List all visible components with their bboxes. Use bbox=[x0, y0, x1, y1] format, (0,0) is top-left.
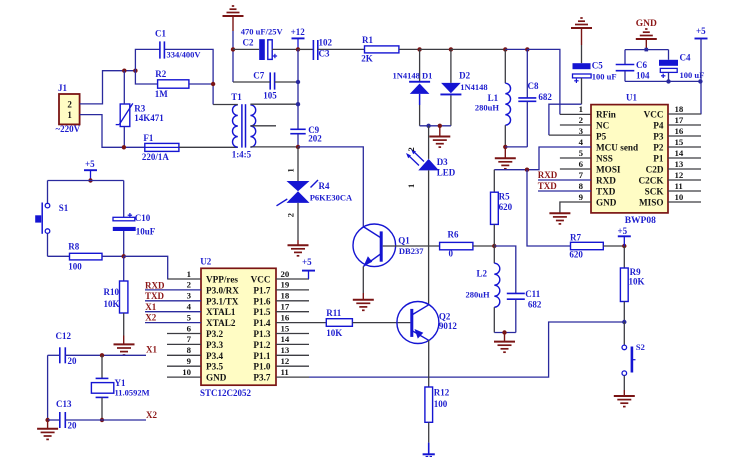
ground Q1 bbox=[353, 299, 374, 301]
wire +5 stem to VCC pin18 bbox=[700, 39, 702, 115]
node D2 top junction bbox=[449, 47, 453, 51]
wire down to T1 node bbox=[297, 82, 299, 104]
node R3 top junction bbox=[122, 69, 126, 73]
capacitor C8 682 bbox=[526, 49, 528, 98]
svg-text:10K: 10K bbox=[104, 299, 120, 309]
resistor R5 bbox=[491, 192, 499, 224]
wire X2 pin5 bbox=[145, 322, 201, 324]
svg-text:L1: L1 bbox=[488, 93, 499, 103]
node +5 stem junction bbox=[698, 79, 702, 83]
wire R5 top bbox=[493, 170, 495, 193]
node F1 junction bbox=[122, 145, 126, 149]
svg-text:C2CK: C2CK bbox=[638, 176, 664, 186]
svg-text:3: 3 bbox=[579, 126, 584, 136]
svg-text:100: 100 bbox=[68, 262, 82, 272]
svg-text:13: 13 bbox=[675, 159, 684, 169]
node L1 top junction bbox=[503, 47, 507, 51]
svg-text:C2: C2 bbox=[243, 38, 254, 48]
wire C13 left bbox=[48, 419, 60, 421]
svg-text:C10: C10 bbox=[135, 213, 151, 223]
wire rail L1-C8 bbox=[505, 48, 527, 50]
resistor R3 varistor bbox=[120, 104, 130, 127]
svg-text:10: 10 bbox=[675, 192, 684, 202]
ground L1 bbox=[504, 147, 506, 158]
ground crystal bbox=[47, 420, 49, 429]
svg-text:334/400V: 334/400V bbox=[167, 49, 202, 59]
wire TXD pin3 bbox=[145, 300, 201, 302]
node C2 left junction bbox=[231, 47, 235, 51]
wire R10 bottom bbox=[123, 313, 125, 336]
svg-text:10K: 10K bbox=[326, 328, 342, 338]
power +5 S1 bbox=[84, 169, 97, 171]
svg-text:3: 3 bbox=[187, 291, 192, 301]
ground C5 top bbox=[571, 27, 592, 29]
wire R4 bottom bbox=[297, 203, 299, 240]
wire D1-D2 bottom bbox=[420, 125, 451, 127]
svg-text:SCK: SCK bbox=[645, 187, 665, 197]
ground L2 bbox=[504, 333, 506, 342]
svg-text:+5: +5 bbox=[696, 26, 706, 36]
svg-text:P1.1: P1.1 bbox=[253, 351, 271, 361]
capacitor C1 bbox=[159, 41, 161, 58]
svg-text:TXD: TXD bbox=[596, 187, 616, 197]
wire junction to U2 pin1 bbox=[124, 256, 168, 279]
svg-text:1: 1 bbox=[286, 168, 296, 172]
wire R2 left lead bbox=[135, 71, 157, 84]
svg-text:682: 682 bbox=[538, 92, 552, 102]
svg-text:11: 11 bbox=[281, 367, 289, 377]
svg-text:19: 19 bbox=[281, 280, 290, 290]
svg-text:P1.4: P1.4 bbox=[253, 318, 271, 328]
U1 right stubs bbox=[668, 124, 701, 126]
svg-text:RXD: RXD bbox=[596, 176, 616, 186]
capacitor C6 104 bbox=[624, 50, 626, 65]
svg-text:12: 12 bbox=[675, 170, 684, 180]
svg-text:P1.5: P1.5 bbox=[253, 307, 271, 317]
svg-text:XTAL2: XTAL2 bbox=[206, 318, 236, 328]
diode D1 1N4148 bbox=[419, 49, 421, 81]
ground top power bbox=[223, 15, 244, 17]
svg-text:5: 5 bbox=[579, 148, 584, 158]
wire C9 node to Q1 collector bbox=[298, 147, 363, 227]
svg-text:L2: L2 bbox=[477, 269, 488, 279]
resistor R9 bbox=[623, 246, 625, 268]
svg-text:+5: +5 bbox=[302, 257, 312, 267]
svg-text:P1: P1 bbox=[653, 154, 664, 164]
inductor L2 280uH bbox=[493, 246, 495, 263]
svg-text:220/1A: 220/1A bbox=[142, 152, 170, 162]
svg-text:14: 14 bbox=[675, 148, 684, 158]
svg-text:9012: 9012 bbox=[439, 321, 458, 331]
node D3 junction bbox=[426, 124, 430, 128]
svg-text:1N4148 D1: 1N4148 D1 bbox=[393, 70, 433, 80]
power +5 U2 bbox=[302, 270, 315, 272]
node C4 bottom junction bbox=[666, 79, 670, 83]
svg-text:GND: GND bbox=[636, 19, 657, 29]
wire R5 node to C11 bbox=[494, 246, 516, 293]
node GND junction bbox=[645, 48, 649, 52]
svg-text:8: 8 bbox=[187, 345, 192, 355]
svg-text:F1: F1 bbox=[143, 133, 153, 143]
wire C4 bottom rail bbox=[668, 72, 670, 81]
wire D3 to Q2 collector bbox=[428, 170, 430, 304]
svg-text:14K471: 14K471 bbox=[134, 113, 164, 123]
wire pin4 MCU send net bbox=[494, 147, 591, 170]
svg-text:RXD: RXD bbox=[538, 170, 558, 180]
wire left vertical C12-C13 bbox=[47, 355, 49, 420]
U2 right stubs bbox=[276, 278, 309, 280]
node S2 junction bbox=[622, 320, 626, 324]
wire Q2 emitter to R12 bbox=[428, 340, 430, 387]
wire R12 bottom bbox=[428, 422, 430, 442]
capacitor C3 bbox=[312, 40, 314, 60]
wire T1 secondary top bbox=[250, 103, 298, 105]
svg-text:P3.7: P3.7 bbox=[253, 373, 271, 383]
wire RXD pin7 bbox=[538, 179, 591, 181]
wire C12 right to X1 bbox=[65, 354, 146, 356]
wire C7 right bbox=[275, 81, 298, 83]
wire Q1 emitter to ground bbox=[362, 266, 364, 293]
svg-text:104: 104 bbox=[636, 71, 650, 81]
svg-text:R4: R4 bbox=[319, 181, 330, 191]
svg-text:S1: S1 bbox=[59, 203, 69, 213]
ground D1D2 bbox=[439, 126, 441, 137]
connector J1 bbox=[59, 94, 80, 124]
svg-text:VCC: VCC bbox=[251, 275, 271, 285]
wire TXD pin8 bbox=[538, 190, 591, 192]
node corner junction C1/R2 bbox=[133, 69, 137, 73]
wire rail to RFin bbox=[527, 49, 560, 114]
wire X1 pin4 bbox=[145, 311, 201, 313]
svg-text:2: 2 bbox=[579, 115, 584, 125]
ground S2 bbox=[614, 395, 635, 397]
wire F1 to T1 primary bottom bbox=[179, 146, 238, 148]
svg-text:202: 202 bbox=[308, 134, 322, 144]
svg-text:8: 8 bbox=[579, 181, 584, 191]
node L1 bottom junction bbox=[503, 145, 507, 149]
svg-text:4: 4 bbox=[187, 302, 192, 312]
transistor Q2 9012 bbox=[397, 302, 439, 344]
svg-text:18: 18 bbox=[281, 291, 290, 301]
svg-text:17: 17 bbox=[675, 115, 684, 125]
svg-text:NC: NC bbox=[596, 121, 609, 131]
svg-text:MOSI: MOSI bbox=[596, 165, 621, 175]
node R9 top junction bbox=[622, 244, 626, 248]
node X1 junction bbox=[100, 353, 104, 357]
svg-text:R11: R11 bbox=[326, 308, 342, 318]
svg-text:1: 1 bbox=[579, 104, 583, 114]
wire ground stem to C2 node bbox=[232, 16, 234, 31]
svg-text:C6: C6 bbox=[636, 60, 647, 70]
svg-text:P4: P4 bbox=[653, 121, 664, 131]
svg-text:NSS: NSS bbox=[596, 154, 613, 164]
wire GND pin9 bbox=[560, 202, 591, 213]
svg-text:GND: GND bbox=[206, 373, 227, 383]
svg-text:20: 20 bbox=[68, 356, 78, 366]
wire J1 pin1 to bottom rail bbox=[80, 115, 145, 148]
wire C2 right to +12 node bbox=[272, 48, 298, 50]
svg-text:R12: R12 bbox=[434, 388, 450, 398]
wire C13 right to X2 bbox=[65, 419, 146, 421]
power +5 R7R9 bbox=[618, 235, 631, 237]
svg-text:P6KE30CA: P6KE30CA bbox=[310, 193, 353, 203]
wire R9 bottom bbox=[623, 302, 625, 323]
svg-text:+5: +5 bbox=[85, 159, 95, 169]
capacitor C7 bbox=[269, 72, 271, 89]
svg-text:T1: T1 bbox=[231, 92, 242, 102]
capacitor C4 100uF electrolytic bbox=[668, 50, 670, 60]
svg-text:Y1: Y1 bbox=[115, 378, 126, 388]
svg-text:+5: +5 bbox=[618, 226, 628, 236]
svg-text:TXD: TXD bbox=[538, 181, 558, 191]
svg-text:RXD: RXD bbox=[145, 280, 165, 290]
svg-text:C13: C13 bbox=[56, 399, 72, 409]
pin 5 stub NSS bbox=[560, 157, 591, 159]
wire R2 right lead bbox=[189, 83, 213, 85]
resistor R11 bbox=[309, 322, 326, 324]
svg-text:MISO: MISO bbox=[639, 198, 664, 208]
svg-text:1N4148: 1N4148 bbox=[460, 82, 487, 92]
ground R10 bbox=[114, 343, 135, 345]
svg-text:20: 20 bbox=[281, 269, 290, 279]
U2 left stubs bbox=[167, 333, 201, 335]
wire C3 to R1 bbox=[318, 48, 365, 50]
diode R4 TVS P6KE30CA bbox=[297, 147, 299, 181]
svg-text:12: 12 bbox=[281, 356, 290, 366]
svg-text:10K: 10K bbox=[629, 276, 645, 286]
svg-text:6: 6 bbox=[579, 159, 584, 169]
resistor R10 bbox=[123, 256, 125, 281]
svg-text:2: 2 bbox=[187, 280, 192, 290]
svg-text:280uH: 280uH bbox=[475, 103, 499, 113]
svg-text:~220V: ~220V bbox=[56, 124, 81, 134]
svg-text:J1: J1 bbox=[58, 83, 68, 93]
wire C1 right to corner bbox=[164, 49, 213, 104]
svg-text:VPP/res: VPP/res bbox=[206, 275, 238, 285]
node R5 junction bbox=[492, 244, 496, 248]
svg-text:10uF: 10uF bbox=[136, 227, 156, 237]
svg-text:P3.2: P3.2 bbox=[206, 329, 224, 339]
pin 2 stub NC bbox=[560, 124, 591, 126]
svg-text:14: 14 bbox=[281, 334, 290, 344]
wire S2 to ground bbox=[623, 376, 625, 391]
svg-text:BWP08: BWP08 bbox=[625, 216, 656, 226]
svg-text:102: 102 bbox=[319, 38, 333, 48]
diode D2 1N4148 bbox=[450, 49, 452, 83]
node C7 right junction bbox=[296, 80, 300, 84]
svg-text:P2: P2 bbox=[653, 143, 664, 153]
svg-text:C5: C5 bbox=[592, 60, 603, 70]
svg-text:R5: R5 bbox=[499, 192, 510, 202]
wire T1 secondary tap bbox=[250, 125, 276, 127]
node R2 right junction bbox=[211, 82, 215, 86]
svg-text:15: 15 bbox=[281, 323, 290, 333]
fuse F1 bbox=[145, 143, 179, 151]
svg-text:1: 1 bbox=[406, 184, 416, 188]
wire R7 to +5 node bbox=[603, 245, 624, 247]
svg-text:XTAL1: XTAL1 bbox=[206, 307, 236, 317]
svg-text:7: 7 bbox=[579, 170, 584, 180]
svg-text:100 uF: 100 uF bbox=[592, 72, 617, 82]
svg-text:2: 2 bbox=[406, 147, 416, 151]
svg-text:682: 682 bbox=[528, 300, 542, 310]
wire +12 node down to C7 bbox=[297, 49, 299, 82]
op-amp U2 STC12C2052 IC body bbox=[201, 268, 276, 385]
wire C2 left bbox=[233, 48, 259, 50]
svg-text:P3.4: P3.4 bbox=[206, 351, 224, 361]
svg-text:P1.2: P1.2 bbox=[253, 340, 271, 350]
svg-text:1: 1 bbox=[187, 269, 191, 279]
svg-text:R7: R7 bbox=[570, 233, 581, 243]
resistor R7 bbox=[571, 242, 604, 249]
svg-text:C12: C12 bbox=[56, 331, 72, 341]
wire MCU branch to R7 bbox=[527, 170, 571, 246]
svg-text:P3.0/RX: P3.0/RX bbox=[206, 285, 239, 295]
wire T1 primary top bbox=[213, 104, 238, 106]
capacitor C9 bbox=[297, 104, 299, 129]
svg-text:1:4:5: 1:4:5 bbox=[232, 150, 252, 160]
wire R8 right bbox=[102, 255, 124, 257]
svg-text:2K: 2K bbox=[361, 54, 373, 64]
diode D3 LED bbox=[428, 126, 430, 159]
svg-text:R2: R2 bbox=[155, 69, 166, 79]
resistor R1 bbox=[365, 46, 399, 53]
svg-text:16: 16 bbox=[281, 312, 290, 322]
transistor Q1 DB237 bbox=[353, 224, 396, 267]
svg-text:X2: X2 bbox=[146, 410, 157, 420]
svg-text:18: 18 bbox=[675, 104, 684, 114]
node MCU send junction bbox=[525, 168, 529, 172]
wire Q1 base to R6 bbox=[383, 245, 440, 247]
wire J1 pin2 to node bbox=[80, 71, 136, 104]
wire C12 left bbox=[48, 354, 60, 356]
pin 6 stub MOSI bbox=[560, 168, 591, 170]
svg-text:9: 9 bbox=[579, 192, 584, 202]
svg-text:RFin: RFin bbox=[596, 110, 616, 120]
svg-text:17: 17 bbox=[281, 302, 290, 312]
wire R1 to D1 node bbox=[399, 48, 420, 50]
svg-text:D2: D2 bbox=[459, 71, 470, 81]
wire rail D1-D2 bbox=[420, 48, 451, 50]
svg-text:C2D: C2D bbox=[646, 165, 664, 175]
node ground junction D1D2 bbox=[438, 124, 442, 128]
node +5 junction bbox=[88, 178, 92, 182]
wire C7 left bbox=[233, 81, 270, 83]
svg-text:11.0592M: 11.0592M bbox=[115, 388, 150, 398]
svg-text:1: 1 bbox=[67, 110, 72, 120]
wire RFin pin1 bbox=[560, 113, 591, 115]
svg-text:5: 5 bbox=[187, 312, 192, 322]
svg-text:6: 6 bbox=[187, 323, 192, 333]
crystal Y1 11.0592M bbox=[101, 355, 103, 378]
svg-text:R1: R1 bbox=[362, 35, 373, 45]
svg-text:DB237: DB237 bbox=[399, 246, 424, 256]
capacitor C12 bbox=[59, 347, 61, 363]
svg-text:7: 7 bbox=[187, 334, 192, 344]
capacitor C13 bbox=[59, 412, 61, 428]
resistor R2 bbox=[158, 80, 189, 88]
node C10 R8 R10 junction bbox=[122, 254, 126, 258]
svg-text:620: 620 bbox=[499, 202, 513, 212]
node T1 secondary top junction bbox=[296, 102, 300, 106]
svg-text:2: 2 bbox=[286, 213, 296, 217]
svg-text:R3: R3 bbox=[134, 103, 145, 113]
wire U2 pin1 bbox=[168, 278, 201, 280]
wire R11 to Q2 base bbox=[352, 322, 410, 324]
wire R5 bottom bbox=[493, 224, 495, 246]
svg-text:X2: X2 bbox=[145, 313, 156, 323]
wire +12 to C3 bbox=[298, 48, 313, 50]
wire P5 pin3 bbox=[549, 134, 591, 136]
svg-text:13: 13 bbox=[281, 345, 290, 355]
capacitor C5 100uF electrolytic bbox=[581, 45, 583, 63]
svg-text:+12: +12 bbox=[291, 27, 306, 37]
wire S1 loop top bbox=[48, 180, 124, 182]
wire L2 C11 bottom bbox=[494, 332, 516, 334]
ground R4 bbox=[288, 244, 309, 246]
svg-text:P5: P5 bbox=[596, 132, 607, 142]
resistor R6 bbox=[440, 242, 473, 249]
svg-text:P1.6: P1.6 bbox=[253, 296, 271, 306]
svg-text:LED: LED bbox=[437, 167, 456, 177]
svg-text:470 uF/25V: 470 uF/25V bbox=[241, 27, 284, 37]
svg-text:C1: C1 bbox=[155, 29, 166, 39]
svg-text:280uH: 280uH bbox=[466, 290, 490, 300]
svg-text:U2: U2 bbox=[200, 257, 211, 267]
svg-text:9: 9 bbox=[187, 356, 192, 366]
svg-text:STC12C2052: STC12C2052 bbox=[200, 388, 252, 398]
svg-text:MCU send: MCU send bbox=[596, 143, 638, 153]
capacitor C2 electrolytic bbox=[259, 39, 265, 60]
svg-text:R6: R6 bbox=[448, 230, 459, 240]
svg-text:P3.5: P3.5 bbox=[206, 362, 224, 372]
svg-text:15: 15 bbox=[675, 137, 684, 147]
svg-text:Q1: Q1 bbox=[398, 236, 410, 246]
capacitor C11 682 bbox=[507, 292, 525, 294]
wire RXD pin2 bbox=[145, 289, 201, 291]
wire R6 to R5 node bbox=[473, 245, 494, 247]
node D1 top junction bbox=[417, 47, 421, 51]
resistor R8 bbox=[70, 253, 103, 260]
resistor R12 bbox=[425, 387, 433, 422]
svg-text:4: 4 bbox=[579, 137, 584, 147]
node L2 bottom junction bbox=[502, 330, 506, 334]
svg-text:S2: S2 bbox=[636, 342, 645, 352]
svg-text:P3.1/TX: P3.1/TX bbox=[206, 296, 239, 306]
ground U1 pin9 bbox=[549, 212, 570, 214]
wire to C1 top rail bbox=[135, 49, 160, 70]
power +5 top right bbox=[695, 38, 708, 40]
svg-text:0: 0 bbox=[449, 249, 454, 259]
svg-text:U1: U1 bbox=[626, 93, 637, 103]
svg-text:1M: 1M bbox=[155, 89, 169, 99]
svg-text:20: 20 bbox=[68, 420, 78, 430]
wire P3.7 pin11 long bbox=[309, 322, 624, 377]
svg-text:P1.7: P1.7 bbox=[253, 285, 271, 295]
node X2 junction bbox=[100, 418, 104, 422]
switch S2 bbox=[623, 322, 625, 345]
svg-text:VCC: VCC bbox=[644, 110, 664, 120]
wire S1 to R8 bbox=[48, 255, 70, 257]
svg-text:C4: C4 bbox=[680, 53, 691, 63]
svg-text:R10: R10 bbox=[104, 287, 120, 297]
power +12 bbox=[292, 37, 305, 39]
node C13 left junction bbox=[45, 418, 49, 422]
svg-text:100: 100 bbox=[434, 399, 448, 409]
transformer T1 bbox=[233, 105, 238, 147]
node C8 top junction bbox=[525, 47, 529, 51]
wire GND horizontal bbox=[625, 49, 669, 51]
